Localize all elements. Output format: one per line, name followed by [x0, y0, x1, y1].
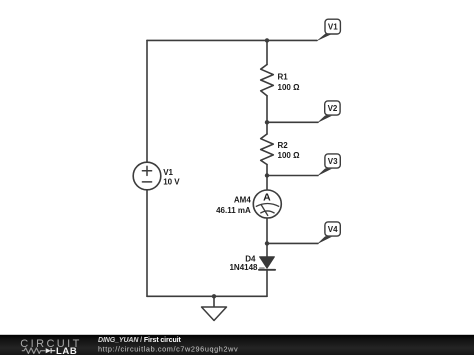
svg-text:D4: D4: [245, 254, 256, 263]
wire R2 bottom lead: [266, 165, 268, 176]
wire node V2 tap: [267, 121, 318, 123]
svg-text:10 V: 10 V: [163, 177, 180, 186]
CircuitLab logo diode: [46, 348, 56, 353]
wire ammeter bottom lead: [266, 218, 268, 243]
footer bar: [0, 335, 474, 355]
node flag V4: [317, 222, 341, 244]
wire left vertical upper: [146, 40, 148, 162]
node flag V1: [316, 19, 340, 41]
svg-text:http://circuitlab.com/c7w296uq: http://circuitlab.com/c7w296uqgh2wv: [98, 344, 238, 353]
svg-text:R1: R1: [278, 73, 289, 82]
svg-text:DING_YUAN / First circuit: DING_YUAN / First circuit: [98, 337, 181, 344]
label V1 source: [163, 168, 180, 187]
svg-text:100 Ω: 100 Ω: [278, 83, 301, 92]
wire node V4 tap: [267, 242, 318, 244]
node junction top: [265, 38, 269, 42]
label R2: [278, 141, 301, 160]
wire R1 bottom lead: [266, 96, 268, 123]
wire node V3 tap: [267, 175, 318, 177]
svg-text:V1: V1: [328, 23, 338, 32]
svg-text:V1: V1: [163, 168, 173, 177]
node flag V2: [317, 101, 340, 123]
svg-text:V4: V4: [328, 225, 338, 234]
diode D4: [259, 257, 275, 270]
node flag V3: [317, 154, 341, 176]
CircuitLab logo resistor zigzag: [22, 348, 46, 354]
wire ground stub: [213, 296, 215, 307]
svg-text:AM4: AM4: [234, 195, 251, 204]
wire left vertical lower: [146, 190, 148, 296]
wire diode top lead: [266, 243, 268, 256]
svg-text:LAB: LAB: [56, 346, 77, 355]
svg-text:V3: V3: [328, 157, 338, 166]
node junction ground: [212, 294, 216, 298]
op-amp ammeter AM4: [253, 190, 281, 218]
node junction V3: [265, 173, 269, 177]
resistor R1: [261, 65, 274, 96]
node junction V2: [265, 120, 269, 124]
ground: [202, 307, 227, 321]
svg-text:100 Ω: 100 Ω: [278, 151, 301, 160]
label R1: [278, 73, 301, 92]
label AM4: [216, 195, 251, 214]
wire R1 top lead: [266, 40, 268, 64]
wire diode bottom lead: [266, 270, 268, 297]
wire ammeter top lead: [266, 176, 268, 191]
svg-text:R2: R2: [278, 141, 289, 150]
voltage source V1: [133, 162, 161, 190]
node junction V4: [265, 241, 269, 245]
label pointer dash D4: [259, 267, 264, 269]
resistor R2: [261, 134, 274, 165]
svg-text:1N4148: 1N4148: [229, 263, 258, 272]
label D4: [229, 254, 258, 272]
wire bottom horizontal: [147, 295, 267, 297]
svg-text:46.11 mA: 46.11 mA: [216, 206, 251, 215]
wire top horizontal: [147, 39, 317, 41]
svg-text:A: A: [263, 192, 271, 204]
svg-text:V2: V2: [328, 104, 338, 113]
wire R2 top lead: [266, 122, 268, 134]
